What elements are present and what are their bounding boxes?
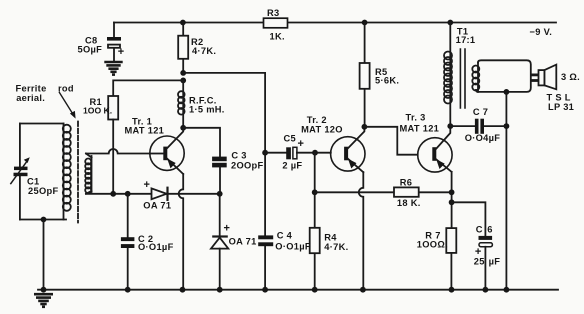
svg-text:aerial.: aerial. [16,93,45,103]
svg-text:C: C [476,225,483,235]
svg-text:MAT 12O: MAT 12O [301,124,343,134]
svg-text:+: + [118,46,125,58]
node Tr2 collector junction [362,124,368,130]
node R6 right junction [449,189,455,195]
tank circuit top wire [20,123,64,125]
diode OA71 D1 [152,188,220,200]
svg-text:C 3: C 3 [231,151,246,161]
svg-text:LP 31: LP 31 [548,102,574,112]
node speaker return junction [504,89,510,95]
resistor R6 [315,187,452,196]
wire C4 branch vertical [264,73,266,290]
transistor Q2 Tr.2 MAT120 [331,127,365,172]
wire C6 branch [452,202,486,289]
svg-text:C1: C1 [27,177,39,187]
wire R2 bottom to C4 branch [183,72,265,74]
transformer T1 core [460,49,465,108]
node C5 right junction [312,150,318,156]
svg-text:2OOpF: 2OOpF [231,160,264,170]
speaker LS1 stubs [531,75,539,81]
node junction C2 top [125,191,131,197]
resistor R5 [360,23,370,127]
svg-text:MAT 121: MAT 121 [125,126,165,136]
svg-text:25OpF: 25OpF [28,186,58,196]
svg-text:O·O1µF: O·O1µF [275,242,311,252]
node tank bottom junction [41,217,47,223]
svg-text:6: 6 [487,225,492,235]
wire speaker loop [476,60,531,92]
node Tr3 collector / C7 junction [447,123,453,129]
ground main (bottom left) [34,294,53,307]
wire R1 top feed [113,80,183,96]
resistor R7 [446,228,456,253]
node C7 right junction [504,123,510,129]
node ground rail left junction [41,287,47,293]
inductor RFC 1.5mH [178,80,185,127]
svg-text:OA 71: OA 71 [143,201,171,211]
svg-text:4·7K.: 4·7K. [192,46,216,56]
svg-text:O·O1µF: O·O1µF [138,242,174,252]
svg-text:MAT 121: MAT 121 [400,123,440,133]
arrow pointer to ferrite rod [59,93,75,119]
wire Tr2 emitter with hop over R6 [359,172,364,290]
tank circuit bottom wire [20,219,66,221]
resistor R3 [264,18,288,28]
resistor R2 [178,23,188,73]
ferrite rod aerial dashed line [77,122,79,223]
wire tank to ground rail [43,220,45,290]
transistor Q1 Tr.1 MAT121 [150,128,184,174]
svg-text:C 7: C 7 [473,107,488,117]
svg-text:Tr. 3: Tr. 3 [406,113,426,123]
svg-text:+: + [144,179,151,191]
capacitor C5 electrolytic [265,147,331,159]
svg-text:Ferrite: Ferrite [16,83,47,93]
svg-text:4·7K.: 4·7K. [324,242,348,252]
svg-text:R6: R6 [400,177,412,187]
capacitor C8 [107,23,121,61]
svg-text:+: + [224,223,231,235]
svg-text:2 µF: 2 µF [282,161,302,171]
ground under C8 [104,62,122,75]
svg-text:3 Ω.: 3 Ω. [561,72,580,82]
resistor R1 [108,96,118,194]
wire top supply rail [114,22,556,24]
svg-text:C 4: C 4 [277,231,293,241]
wire Tr3 emitter [450,172,452,290]
svg-text:O·O4µF: O·O4µF [465,133,501,143]
inductor L1 aerial coil [63,124,71,220]
capacitor C7 [450,119,506,134]
node top rail junction R2 [180,20,186,26]
svg-text:−9 V.: −9 V. [530,27,553,37]
wire speaker return to ground rail [505,92,507,290]
svg-text:+: + [298,138,305,150]
node RFC bottom / Tr1 collector junction [180,125,186,131]
node ground rail junctions [125,287,131,293]
svg-text:1K.: 1K. [270,31,285,41]
node C6 branch junction [449,199,455,205]
speaker LS1 [539,65,557,90]
svg-text:17:1: 17:1 [456,35,476,45]
svg-text:T S L: T S L [547,92,571,102]
wire bottom ground rail [38,289,558,291]
diode OA71 D2 [211,194,228,290]
capacitor C1 variable [11,124,30,220]
inductor L2 coupling coil [85,154,91,194]
svg-text:1OOΩ.: 1OOΩ. [417,239,448,249]
node top rail junction R5 [362,20,368,26]
capacitor C2 [121,194,134,290]
svg-text:5·6K.: 5·6K. [375,76,399,86]
transformer T1 secondary [472,63,479,92]
svg-text:C5: C5 [284,133,296,143]
wire RFC bottom to C3 top [183,128,220,157]
svg-text:rod: rod [58,83,74,93]
node detector junction at C3 line [217,191,223,197]
node top rail junction T1 [447,20,453,26]
node junction R1 bottom [110,191,116,197]
capacitor C4 [258,235,273,246]
svg-text:25: 25 [474,256,485,266]
capacitor C6 electrolytic [479,236,493,247]
transistor Q3 Tr.3 MAT121 [418,126,452,172]
wire base feed with hop over R1 line [86,149,150,154]
capacitor C3 [212,157,227,194]
node R2 bottom junction [180,70,186,76]
node ground rail speaker return junction [504,287,510,293]
wire Tr1 emitter with hop over detector line [179,174,184,290]
svg-text:1·5 mH.: 1·5 mH. [189,105,225,115]
node C5 left junction [262,150,268,156]
svg-text:18 K.: 18 K. [397,198,421,208]
node R6 left junction [312,189,318,195]
svg-text:µF: µF [489,257,501,267]
svg-text:5OµF: 5OµF [78,44,103,54]
node R1 top wire junction [180,78,186,84]
wire detector line left [86,193,152,195]
svg-text:R3: R3 [267,8,279,18]
transformer T1 primary [444,23,452,127]
svg-text:OA 71: OA 71 [229,236,257,246]
wire Tr2 collector to Tr3 base [364,127,417,155]
resistor R4 [310,153,320,290]
svg-text:1OO K.: 1OO K. [83,105,112,115]
